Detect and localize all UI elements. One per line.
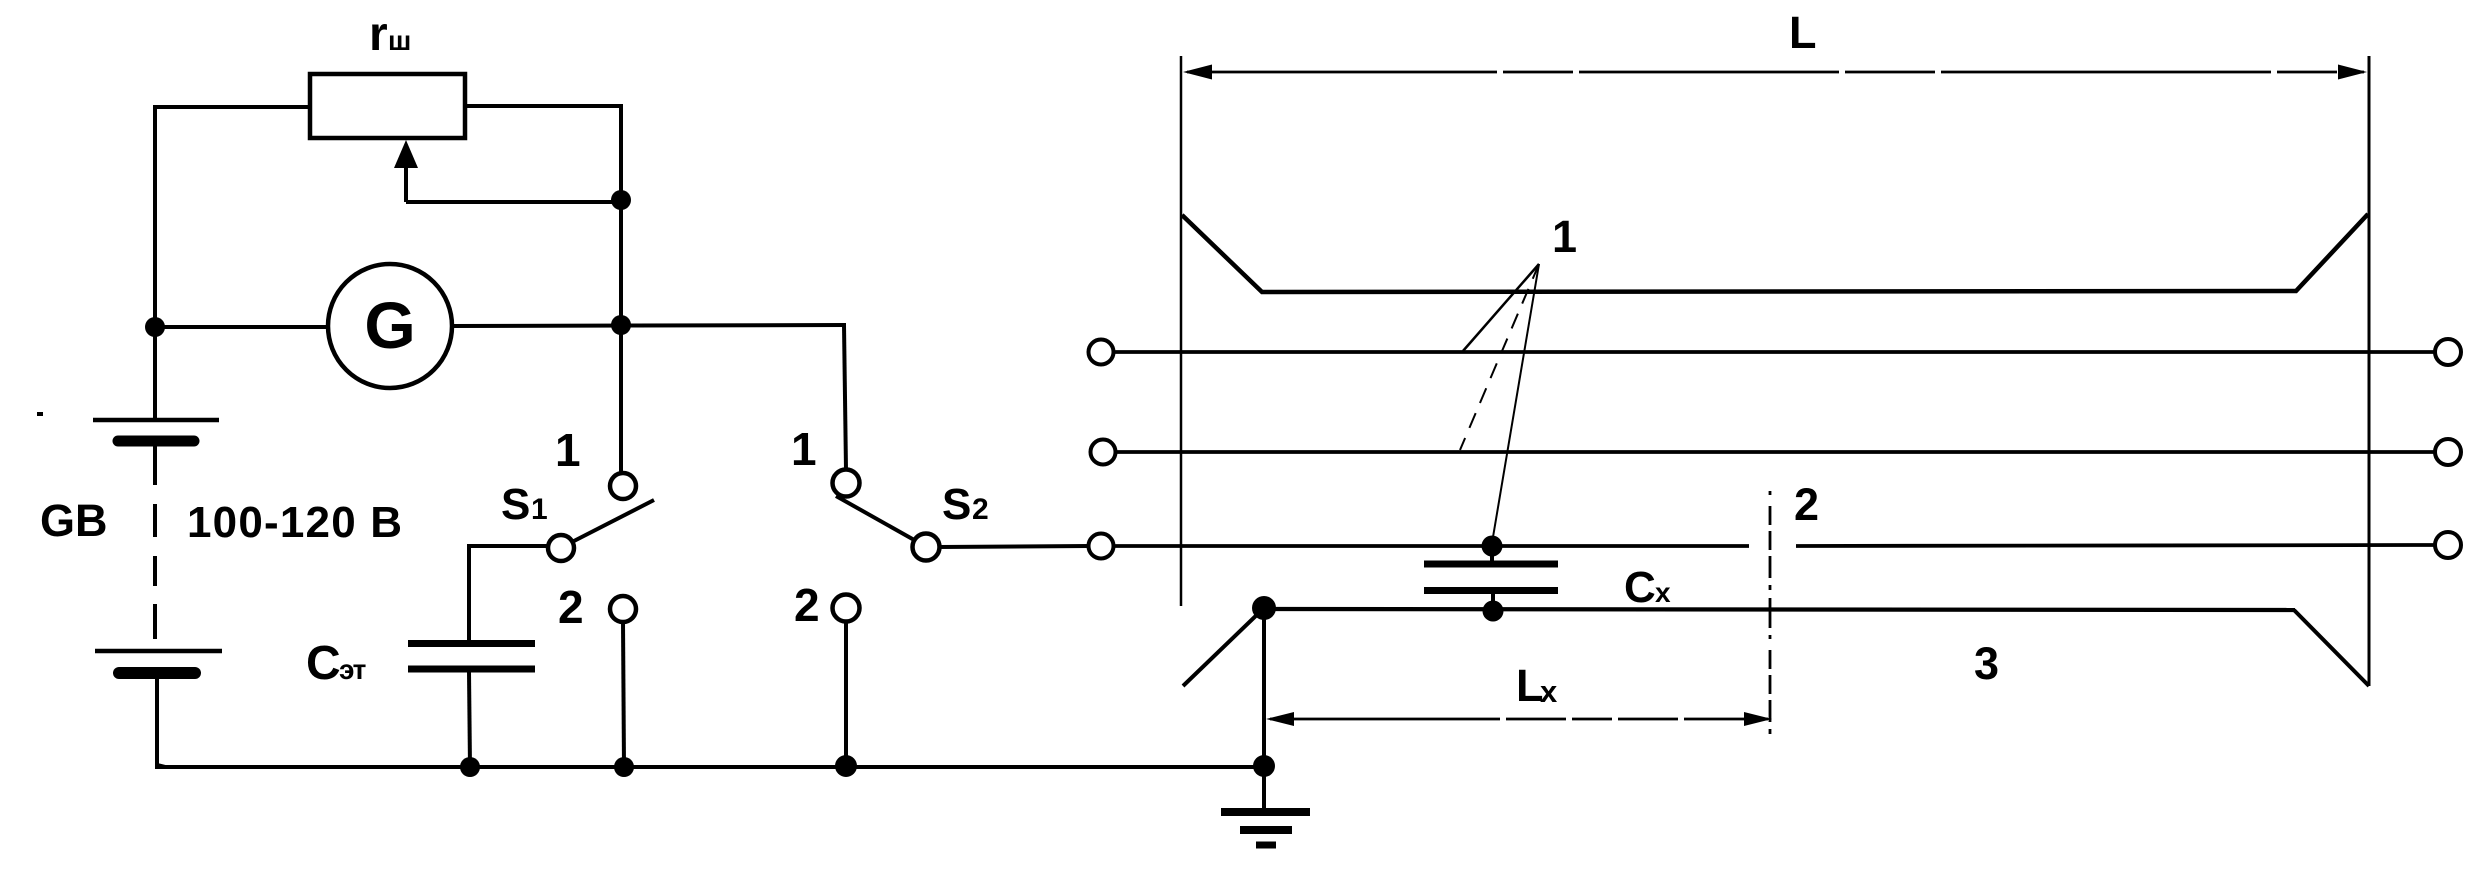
- svg-text:2: 2: [794, 579, 820, 631]
- switch S1 lever: [572, 500, 654, 542]
- conductor 1 left terminal: [1089, 340, 1114, 365]
- switch S1 contact 2: [610, 596, 636, 622]
- galvanometer G: [328, 264, 452, 388]
- wire shield to ground: [1262, 608, 1266, 810]
- dimension arrow Lx right: [1744, 712, 1772, 726]
- junction node on left rail: [145, 317, 165, 337]
- svg-text:G: G: [364, 288, 415, 362]
- svg-text:x: x: [1540, 674, 1558, 709]
- switch S2 contact 2: [833, 595, 860, 622]
- battery dashed link dashes: [153, 504, 157, 537]
- junction node Cэт/bottom rail: [460, 757, 480, 777]
- wire resistor right to right rail: [463, 104, 623, 108]
- svg-text:S: S: [942, 480, 971, 529]
- node Cx bottom on shield: [1483, 601, 1504, 622]
- speck artifact: [37, 412, 43, 416]
- svg-text:L: L: [1789, 7, 1817, 58]
- battery GB cell 2 negative plate: [119, 667, 195, 679]
- leader line to capacitor Cx node: [1492, 264, 1539, 543]
- conductor 1 right terminal: [2435, 339, 2461, 365]
- switch S1 common pole: [548, 535, 574, 561]
- conductor 2 right terminal: [2435, 439, 2461, 465]
- svg-text:3: 3: [1974, 638, 1999, 689]
- battery GB cell 1 negative plate: [118, 436, 194, 447]
- svg-text:x: x: [1655, 577, 1671, 608]
- svg-text:2: 2: [972, 493, 989, 526]
- conductor 3 left terminal: [1089, 534, 1114, 559]
- cut mark dash-dot line at measuring point: [1769, 491, 1772, 741]
- ground bar 1: [1221, 808, 1310, 816]
- svg-text:1: 1: [1552, 211, 1577, 262]
- svg-text:2: 2: [1794, 479, 1819, 530]
- wire S1 common to Cэт: [469, 546, 550, 640]
- resistor rш body: [310, 74, 465, 138]
- switch S2 common pole: [913, 534, 940, 561]
- svg-text:S: S: [501, 480, 530, 529]
- svg-text:r: r: [369, 8, 388, 61]
- wire wiper to right rail: [406, 200, 621, 204]
- conductor 2 left terminal: [1091, 440, 1116, 465]
- shield right fan diagonal: [2294, 610, 2369, 686]
- dimension line Lx: [1270, 718, 1768, 721]
- capacitor Cx top plate: [1424, 561, 1558, 568]
- svg-text:2: 2: [558, 581, 584, 633]
- svg-text:1: 1: [555, 424, 581, 476]
- dimension line L: [1187, 71, 2364, 74]
- wire S2 contact 2 to bottom rail: [844, 621, 848, 766]
- dimension extension line left: [1180, 56, 1183, 606]
- capacitor Cэт top plate: [408, 640, 535, 647]
- dimension arrow Lx left: [1266, 712, 1294, 726]
- wire down to switch S2 contact 1: [844, 325, 846, 470]
- conductor 3 right terminal: [2435, 532, 2461, 558]
- wire top horizontal to resistor rш: [153, 105, 312, 109]
- switch S1 contact 1: [610, 473, 636, 499]
- svg-text:1: 1: [791, 423, 817, 475]
- svg-text:C: C: [306, 637, 341, 690]
- dimension arrow L right: [2338, 65, 2367, 80]
- cable conductor 3 wire right segment: [1796, 545, 2436, 546]
- wire right rail down to switch S1 contact 1: [619, 104, 623, 473]
- wire galvanometer to S2 branch: [452, 325, 846, 326]
- shield left fan diagonal: [1183, 608, 1264, 686]
- leader line to conductor 2 (dashed): [1460, 264, 1539, 450]
- junction node S1-2/bottom rail: [614, 757, 634, 777]
- wire Cэт to bottom rail: [469, 672, 470, 767]
- switch S2 contact 1: [833, 470, 860, 497]
- svg-text:1: 1: [531, 493, 548, 526]
- battery GB cell 2 positive plate: [95, 649, 222, 654]
- ground bar 3: [1256, 842, 1276, 849]
- svg-text:GB: GB: [40, 495, 108, 546]
- capacitor Cx bottom plate: [1424, 587, 1558, 594]
- junction node wiper/right rail: [611, 190, 631, 210]
- capacitor Cx top lead: [1490, 546, 1494, 562]
- wire left rail to galvanometer: [155, 325, 328, 329]
- svg-text:100-120 В: 100-120 В: [187, 498, 403, 547]
- cable conductor 1 wire: [1113, 350, 2436, 354]
- wire S1 contact 2 to bottom rail: [623, 622, 624, 767]
- junction node S2-2/bottom rail: [835, 755, 857, 777]
- wire bottom rail: [155, 765, 1266, 769]
- cable braid envelope top: [1182, 214, 2368, 292]
- svg-text:эт: эт: [339, 654, 366, 685]
- ground bar 2: [1240, 826, 1292, 834]
- wire battery negative down to bottom rail: [157, 679, 165, 767]
- cable conductor 3 wire left segment: [1113, 544, 1749, 548]
- wire S2 common to cable conductor 2 terminal: [939, 546, 1089, 547]
- svg-text:ш: ш: [388, 25, 411, 56]
- junction node bottom rail/ground: [1253, 755, 1275, 777]
- capacitor Cx bottom lead: [1491, 592, 1495, 611]
- battery GB cell 1 positive plate: [93, 418, 219, 423]
- wire left rail top (battery + to resistor): [153, 107, 157, 421]
- node Cx top on conductor 3: [1482, 536, 1503, 557]
- cable conductor 2 wire: [1116, 450, 2436, 454]
- junction node G/right rail: [611, 315, 631, 335]
- potentiometer wiper arrow of rш: [394, 140, 418, 168]
- dimension arrow L left: [1183, 65, 1212, 80]
- battery dashed link stub: [153, 446, 157, 485]
- cable shield line 3: [1264, 609, 2295, 610]
- leader line to conductor 1: [1463, 264, 1539, 351]
- junction node shield/ground: [1252, 596, 1276, 620]
- capacitor Cэт bottom plate: [408, 666, 535, 673]
- dimension extension line right: [2368, 56, 2371, 686]
- switch S2 lever: [836, 496, 916, 541]
- svg-text:C: C: [1624, 563, 1656, 612]
